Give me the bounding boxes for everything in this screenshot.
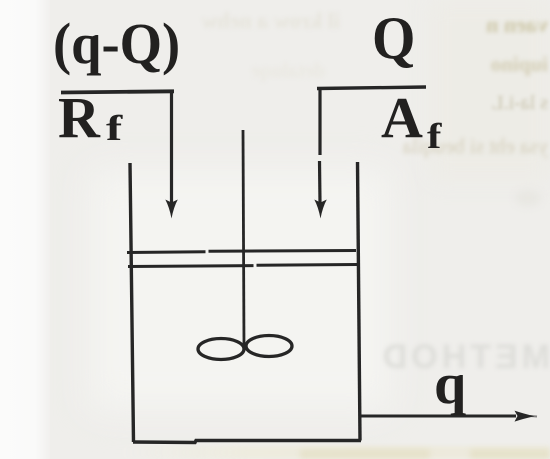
wire outlet [360,415,516,418]
tank right wall [358,162,361,441]
svg-text:f: f [106,109,123,149]
wire fraction bar right Q/Af [317,87,426,89]
tank rim upper line [127,251,356,253]
faint smudge right middle [515,190,541,206]
paper top-right slightly warm [430,0,550,180]
stirrer shaft [243,130,244,347]
svg-text:(q-Q): (q-Q) [53,13,180,77]
svg-text:A: A [381,85,423,150]
impeller left blade [198,339,244,360]
arrowhead left inlet [165,200,178,219]
paper bottom warm band [120,446,550,459]
svg-text:f: f [427,116,442,156]
METHOD mirrored bleed-through [354,338,550,370]
paper lighter interior [90,170,390,410]
paper left white margin [0,0,50,459]
svg-text:Q: Q [372,4,415,71]
arrowhead outlet [515,411,535,422]
svg-text:q: q [434,351,466,416]
wire right arrow vertical [318,88,321,155]
tank bottom [133,441,361,443]
wire fraction bar left (q-Q)/Rf [61,91,174,92]
arrowhead right inlet [314,200,327,219]
tank left wall [130,163,134,442]
svg-text:R: R [58,85,101,150]
bleed-through mirrored faint text lines (top) [115,8,340,34]
wire left arrow vertical [170,92,173,204]
impeller right blade [246,336,292,357]
tank rim lower line [128,265,357,267]
